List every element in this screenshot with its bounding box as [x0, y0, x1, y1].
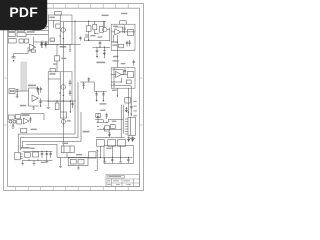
- PDF badge: [0, 0, 47, 30]
- junction node D: [88, 39, 89, 40]
- resistor R17: [125, 98, 131, 103]
- label net SPK: [83, 131, 90, 133]
- op-amp U5: [115, 29, 121, 35]
- wire mid verticals: [57, 44, 63, 72]
- capacitor C7 output: [39, 98, 42, 107]
- wire U6 nets: [111, 68, 127, 85]
- label D2: [96, 62, 105, 64]
- ground GND8: [47, 101, 50, 108]
- wire input to U1: [26, 34, 48, 36]
- wire box2 internals: [48, 72, 63, 101]
- capacitor C31 polarized: [102, 91, 105, 101]
- label R25: [90, 35, 95, 36]
- capacitor C8: [29, 117, 32, 123]
- wire bus V+: [18, 44, 75, 152]
- capacitor C17 polarized: [96, 47, 99, 57]
- resistor R29: [42, 25, 49, 29]
- transistor Q2: [61, 85, 65, 89]
- junction dots U5: [117, 31, 124, 42]
- junction dots box1: [60, 35, 65, 39]
- resistor R25: [93, 21, 97, 34]
- junction dots right col: [128, 112, 132, 115]
- regulator U4: [33, 152, 39, 157]
- label box3: [112, 44, 118, 57]
- capacitor C21: [124, 68, 127, 74]
- wire supply bus mid: [39, 100, 76, 102]
- wire PSU top rail: [23, 150, 53, 152]
- resistor R5: [31, 50, 35, 52]
- label Q4: [98, 15, 109, 38]
- resistor R26: [96, 113, 101, 117]
- capacitor C18: [123, 25, 126, 33]
- wire U6 feedback: [111, 70, 123, 82]
- resistor R9: [50, 38, 55, 41]
- resistor R23: [119, 44, 124, 48]
- label R13: [85, 34, 88, 38]
- wire stub left of rail: [84, 37, 86, 40]
- connector J5 phono: [8, 115, 14, 119]
- ground GND5: [33, 160, 36, 165]
- capacitor C6: [40, 87, 43, 93]
- op-amp U3: [23, 118, 29, 124]
- wire top rail center: [60, 21, 106, 44]
- wire box3 bottom: [111, 42, 135, 50]
- sheet background: [0, 0, 149, 198]
- label misc designators: [30, 63, 117, 163]
- diode D4: [127, 136, 129, 142]
- wire Q3 branch: [60, 101, 63, 126]
- wire speaker feed: [121, 105, 123, 138]
- diode D2: [103, 47, 106, 58]
- diode D6: [108, 132, 110, 137]
- capacitor C20: [133, 60, 136, 66]
- wire box1 internal left: [48, 20, 60, 28]
- resistor R3: [19, 39, 23, 43]
- ground GND7: [69, 44, 72, 51]
- capacitor C23: [97, 114, 100, 123]
- connector J3 input jack: [8, 39, 16, 43]
- capacitor C4 polarized: [16, 89, 18, 96]
- connector J4 line-in: [9, 89, 15, 94]
- label C7 value: [20, 105, 26, 107]
- wire J4 to U2: [15, 90, 29, 92]
- connector J2 input jack: [8, 33, 15, 37]
- junction dots center low: [97, 126, 104, 129]
- resistor R15: [127, 29, 133, 35]
- label K1: [62, 143, 82, 156]
- ground GND10: [103, 157, 106, 163]
- wire to J11 pin2: [96, 119, 123, 122]
- capacitor C1: [40, 42, 43, 46]
- wire boxes row top rail: [96, 137, 125, 139]
- capacitor C32: [105, 113, 108, 119]
- wire U2 loop: [29, 88, 39, 106]
- label PSU: [20, 147, 29, 149]
- capacitor C13: [69, 80, 72, 86]
- resistor R12: [60, 112, 66, 118]
- wire Q4 emitter: [95, 21, 110, 33]
- wire U5 feedback: [111, 27, 123, 42]
- connector header J9: [50, 69, 55, 72]
- transistor Q4: [103, 27, 107, 31]
- wire step net PS: [80, 82, 106, 91]
- wire stub node C: [70, 101, 71, 113]
- junction dots PSU: [28, 151, 47, 161]
- resistor R11: [55, 101, 59, 110]
- label Q1: [49, 17, 54, 19]
- relay K1: [61, 146, 74, 153]
- connector J11 speaker terminal: [125, 117, 136, 135]
- capacitor C14: [69, 90, 72, 96]
- block output driver box: [48, 72, 72, 101]
- ground GND9: [59, 157, 62, 167]
- label right column pins: [133, 101, 136, 116]
- wire aux feed: [26, 144, 57, 146]
- block tone amplifier box: [48, 15, 72, 44]
- wire K1 feeds: [57, 124, 67, 158]
- capacitor C2: [44, 42, 47, 46]
- wire phono send: [20, 114, 44, 120]
- ground GND11: [119, 157, 122, 163]
- wire net F: [95, 120, 103, 122]
- wire U5 nets: [111, 32, 135, 50]
- wire Q4 branch: [85, 21, 110, 41]
- wire node A drop: [34, 37, 38, 48]
- resistor R6: [15, 115, 20, 119]
- connector J6 rca pair: [9, 120, 16, 123]
- svg-text:PDF: PDF: [9, 4, 38, 20]
- connector J1 input jack: [8, 27, 15, 31]
- label C30 C31: [100, 103, 107, 104]
- label U2 stage: [28, 85, 36, 87]
- ground GND1: [16, 94, 19, 97]
- wire U1 feedback: [13, 47, 31, 58]
- connector header J8: [55, 11, 62, 15]
- block PSU connector J7: [15, 152, 23, 159]
- label rail: [50, 41, 66, 48]
- op-amp U6: [116, 71, 122, 77]
- junction dots top rail: [74, 21, 89, 22]
- label cluster F: [100, 110, 116, 122]
- capacitor C26: [126, 41, 129, 47]
- TITLE BLOCK: [106, 174, 140, 186]
- capacitor C9: [41, 151, 44, 158]
- wire bus V-: [20, 82, 78, 150]
- connector header J10: [120, 21, 127, 24]
- label U5 designator: [113, 13, 127, 27]
- resistor R19: [78, 159, 84, 164]
- capacitor C19: [128, 40, 131, 46]
- capacitor C11: [41, 40, 44, 48]
- label bus: [31, 129, 37, 130]
- resistor R18: [104, 126, 109, 131]
- inductor L1: [70, 159, 76, 164]
- label J5: [21, 114, 29, 116]
- connector J12 output: [88, 152, 96, 158]
- label net IN: [27, 31, 35, 33]
- bus shielded cable: [21, 62, 27, 92]
- wire inter-box: [116, 50, 118, 67]
- resistor R22: [118, 140, 126, 147]
- transistor Q1: [61, 28, 65, 32]
- rectifier D1 bridge: [24, 153, 30, 158]
- resistor R4: [24, 39, 28, 43]
- wire stage1 top: [37, 41, 48, 43]
- wire bottom-right verticals: [100, 146, 120, 157]
- capacitor C15: [71, 101, 74, 108]
- ground GND6: [45, 158, 48, 163]
- ground GND12: [77, 166, 80, 170]
- wire mid rail right: [92, 46, 110, 48]
- ground GND3: [12, 123, 15, 128]
- label J11: [129, 138, 135, 139]
- resistor R1: [17, 27, 25, 31]
- op-amp U1: [30, 44, 36, 50]
- wire bottom rail right: [96, 156, 132, 158]
- wire box1 vertical rails: [60, 15, 63, 44]
- junction dots bus mid: [48, 100, 72, 101]
- wire box4 bottom net: [111, 84, 131, 89]
- capacitor C29: [88, 77, 91, 82]
- block output filter box: [68, 158, 88, 166]
- resistor R13: [86, 21, 91, 40]
- label box2: [50, 73, 56, 75]
- capacitor C10: [46, 151, 49, 158]
- resistor R28: [21, 128, 27, 132]
- resistor R21: [108, 140, 116, 147]
- wire right column rails: [128, 86, 131, 116]
- wire sense stub: [117, 88, 118, 97]
- wire output rail low: [57, 156, 96, 158]
- wire PSU bottom rail: [23, 159, 53, 161]
- capacitor C27: [79, 36, 82, 41]
- capacitor C28 polarized: [82, 82, 85, 89]
- resistor R20: [96, 140, 104, 147]
- block headphone amp box: [111, 68, 135, 89]
- resistor R10: [54, 56, 59, 61]
- capacitor C25: [127, 157, 130, 163]
- wire bus GND run: [23, 112, 81, 148]
- junction dots box2: [60, 92, 65, 96]
- capacitor C22: [130, 105, 133, 111]
- block protection circuit box: [104, 146, 134, 164]
- capacitor C33: [49, 151, 52, 158]
- resistor R7: [17, 119, 22, 124]
- label R10: [61, 58, 66, 60]
- wire rail bottom: [40, 43, 80, 45]
- junction node E: [94, 33, 95, 34]
- junction dots mid rail: [99, 47, 105, 48]
- transistor Q3: [61, 120, 65, 124]
- capacitor C30 polarized: [95, 91, 98, 101]
- capacitor C5: [36, 86, 39, 93]
- resistor R8: [56, 24, 60, 28]
- junction dots bottom rail: [100, 157, 129, 158]
- ground GND4: [21, 160, 24, 165]
- bus shield edges: [21, 62, 27, 92]
- junction node B: [12, 124, 13, 125]
- resistor R2: [17, 33, 26, 37]
- wire to J11 pin5: [97, 128, 121, 130]
- capacitor C16: [99, 41, 102, 47]
- capacitor C24: [111, 157, 114, 163]
- wire input row1: [32, 29, 49, 31]
- resistor R27: [110, 125, 115, 129]
- junction dots U6: [121, 74, 124, 83]
- block input selector box: [111, 24, 135, 50]
- capacitor C12: [45, 41, 48, 48]
- resistor R16: [127, 72, 133, 78]
- label between boxes: [113, 60, 126, 64]
- diode D3: [125, 107, 127, 112]
- resistor R24: [126, 80, 131, 84]
- op-amp U2: [32, 95, 38, 101]
- capacitor C3 polarized: [12, 56, 16, 61]
- label U6 designator: [113, 69, 117, 70]
- ground GND2: [32, 106, 35, 109]
- resistor R14: [99, 26, 103, 32]
- label R1 value: [26, 28, 32, 30]
- wire return loop: [95, 150, 98, 170]
- junction dots net F: [97, 122, 107, 123]
- diode D5: [131, 136, 133, 142]
